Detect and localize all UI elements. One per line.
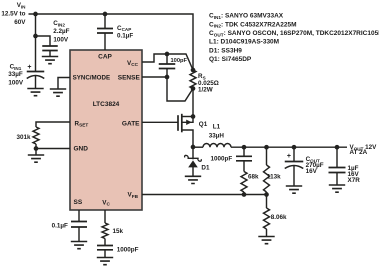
svg-text:301k: 301k bbox=[16, 134, 31, 141]
wire VFB to 8.06k bbox=[266, 195, 268, 209]
node 1uF branch bbox=[335, 145, 340, 150]
capacitor 1uF bbox=[329, 168, 346, 173]
node 100pF top junction bbox=[165, 52, 170, 57]
wire SYNC/MODE pin to ground bbox=[58, 78, 70, 90]
wire 1000pF to 68k bbox=[243, 161, 245, 172]
svg-text:+: + bbox=[27, 64, 31, 71]
wire rail to 1uF bbox=[336, 147, 338, 167]
node switch node SW bbox=[191, 145, 196, 150]
diode D1 triangle bbox=[188, 160, 198, 167]
wire branch to 113k bbox=[266, 147, 268, 165]
svg-text:GATE: GATE bbox=[122, 121, 140, 128]
wire VOUT rail bbox=[231, 146, 347, 148]
svg-text:16V: 16V bbox=[306, 168, 318, 175]
wire CIN1 to ground bbox=[35, 76, 37, 89]
ground below 8.06k bbox=[258, 237, 274, 244]
svg-text:68k: 68k bbox=[248, 173, 259, 180]
wire VC pin down bbox=[104, 210, 106, 223]
wire SENSE pin to RS bottom bbox=[142, 77, 193, 101]
svg-text:Q1: Q1 bbox=[199, 121, 208, 128]
transistor Q1 channel bar bbox=[181, 114, 183, 133]
node RS bottom bbox=[191, 86, 196, 91]
wire SS pin down bbox=[78, 210, 80, 222]
svg-text:SS: SS bbox=[74, 199, 83, 206]
ground below 1uF bbox=[329, 185, 345, 192]
svg-text:CIN2: TDK C4532X7R2A225M: CIN2: TDK C4532X7R2A225M bbox=[209, 21, 297, 28]
wire rail to CCAP bbox=[104, 14, 106, 29]
svg-text:100V: 100V bbox=[53, 36, 69, 43]
capacitor 0.1uF soft-start bbox=[71, 222, 87, 228]
wire rail to COUT bbox=[293, 147, 295, 161]
capacitor CIN1 (polarized) bbox=[27, 71, 45, 73]
wire 100pF bottom stub bbox=[166, 69, 168, 78]
ground below SS cap bbox=[71, 242, 87, 249]
ground below 301k bbox=[28, 155, 44, 162]
capacitor 100pF bbox=[159, 64, 176, 69]
wire branch to 1000pF bbox=[243, 147, 245, 156]
capacitor COUT (polarized) bbox=[285, 161, 304, 163]
wire comp cap to ground bbox=[104, 250, 106, 258]
ground below CIN1 bbox=[27, 89, 43, 96]
node RS top bbox=[191, 68, 196, 73]
svg-text:CAP: CAP bbox=[98, 53, 112, 60]
wire CIN2 to ground bbox=[49, 51, 51, 57]
wire input column down to CIN1 bbox=[35, 14, 37, 72]
wire 68k to VFB line bbox=[243, 192, 245, 195]
diode D1 schottky cathode bar bbox=[185, 155, 202, 161]
svg-text:D1: SS3H9: D1: SS3H9 bbox=[209, 47, 242, 54]
wire VIN top rail bbox=[29, 14, 194, 70]
node COUT branch bbox=[292, 145, 297, 150]
svg-text:33µF: 33µF bbox=[8, 71, 23, 78]
node 113k branch bbox=[264, 145, 269, 150]
svg-text:L1: D104C919AS-330M: L1: D104C919AS-330M bbox=[209, 39, 279, 46]
transistor Q1 drain stub bbox=[182, 130, 193, 147]
resistor 15k bbox=[102, 223, 108, 239]
svg-text:L1: L1 bbox=[213, 124, 221, 131]
svg-text:Q1: Si7465DP: Q1: Si7465DP bbox=[209, 56, 252, 63]
svg-text:GND: GND bbox=[74, 145, 89, 152]
transistor Q1 source stub bbox=[182, 116, 193, 118]
transistor Q1 body stub bbox=[182, 117, 193, 123]
capacitor CIN2 bbox=[42, 46, 58, 51]
node VFB/113k junction bbox=[264, 192, 269, 197]
node 1000pF/68k branch bbox=[242, 145, 247, 150]
node CAP cap junction on rail bbox=[103, 12, 108, 17]
svg-text:113k: 113k bbox=[267, 173, 281, 180]
resistor 68k bbox=[241, 172, 247, 193]
wire CIN2 branch bbox=[36, 36, 51, 46]
svg-text:1000pF: 1000pF bbox=[211, 155, 233, 162]
resistor 8.06k bbox=[264, 208, 270, 229]
wire 113k to VFB line bbox=[266, 192, 268, 195]
wire 8.06k to ground bbox=[266, 229, 268, 237]
transistor Q1 gate bar bbox=[177, 115, 179, 131]
svg-text:0.1µF: 0.1µF bbox=[117, 32, 133, 39]
op-amp U1 LTC3824 controller IC body bbox=[70, 50, 142, 210]
transistor Q1 body diode arrow (P-channel) bbox=[186, 120, 192, 125]
node SENSE / 100pF junction bbox=[165, 75, 170, 80]
capacitor 1000pF compensation bbox=[97, 246, 113, 250]
wire SW to L1 bbox=[193, 146, 203, 148]
wire GATE pin to Q1 gate bbox=[142, 121, 178, 123]
resistor RS 0.025ohm bbox=[190, 70, 196, 89]
node CIN2 branch junction bbox=[33, 34, 38, 39]
inductor L1 33uH bbox=[203, 144, 231, 148]
svg-text:SENSE: SENSE bbox=[118, 75, 141, 82]
node input rail / CIN branch junction bbox=[33, 12, 38, 17]
node 301k / GND junction bbox=[34, 146, 39, 151]
wire SW to D1 bbox=[192, 147, 194, 159]
svg-text:8.06k: 8.06k bbox=[271, 214, 287, 221]
svg-text:COUT: SANYO OSCON, 16SP270M, T: COUT: SANYO OSCON, 16SP270M, TDKC2012X7R… bbox=[209, 30, 379, 37]
wire SS cap to ground bbox=[78, 227, 80, 242]
ground at SYNC/MODE bbox=[50, 89, 66, 96]
svg-text:12.5V to: 12.5V to bbox=[1, 10, 25, 17]
svg-text:100pF: 100pF bbox=[171, 58, 188, 64]
node Q1 source/body junction bbox=[191, 114, 196, 119]
svg-text:100V: 100V bbox=[8, 79, 24, 86]
wire COUT to ground bbox=[293, 166, 295, 186]
svg-text:X7R: X7R bbox=[348, 177, 361, 184]
svg-text:+: + bbox=[287, 153, 291, 160]
ground below D1 bbox=[185, 176, 201, 183]
resistor 113k bbox=[264, 165, 270, 192]
svg-text:LTC3824: LTC3824 bbox=[93, 101, 120, 108]
svg-text:CIN1: SANYO 63MV33AX: CIN1: SANYO 63MV33AX bbox=[209, 13, 284, 20]
svg-text:AT 2A: AT 2A bbox=[350, 149, 368, 156]
wire 100pF top stub bbox=[166, 54, 168, 64]
svg-text:15k: 15k bbox=[113, 228, 124, 235]
svg-text:1/2W: 1/2W bbox=[198, 86, 213, 93]
wire 1uF to ground bbox=[336, 173, 338, 186]
svg-text:SYNC/MODE: SYNC/MODE bbox=[73, 75, 110, 82]
capacitor CCAP bbox=[97, 29, 113, 34]
wire 301k to gnd node bbox=[35, 144, 37, 149]
wire VCC pin to RS top bbox=[142, 54, 193, 70]
svg-text:2.2µF: 2.2µF bbox=[53, 28, 69, 35]
svg-text:60V: 60V bbox=[14, 19, 26, 26]
ground below CIN2 bbox=[42, 57, 58, 64]
wire RS to Q1 source bbox=[192, 89, 194, 117]
wire D1 anode to ground bbox=[192, 167, 194, 176]
ground below comp cap bbox=[97, 258, 113, 265]
svg-text:1000pF: 1000pF bbox=[117, 247, 139, 254]
wire VFB line bbox=[142, 194, 267, 196]
wire RSET pin bbox=[36, 122, 70, 127]
svg-text:0.1µF: 0.1µF bbox=[52, 223, 68, 230]
capacitor 1000pF (feedforward) bbox=[236, 156, 252, 161]
wire 15k to 1000pF bbox=[104, 239, 106, 246]
ground below COUT bbox=[286, 186, 302, 193]
node VFB/68k junction bbox=[242, 192, 247, 197]
wire GND pin bbox=[36, 149, 70, 156]
wire CCAP to CAP pin bbox=[104, 33, 106, 50]
svg-text:D1: D1 bbox=[201, 165, 210, 172]
resistor R 301k bbox=[33, 127, 39, 144]
svg-text:33µH: 33µH bbox=[209, 132, 225, 139]
